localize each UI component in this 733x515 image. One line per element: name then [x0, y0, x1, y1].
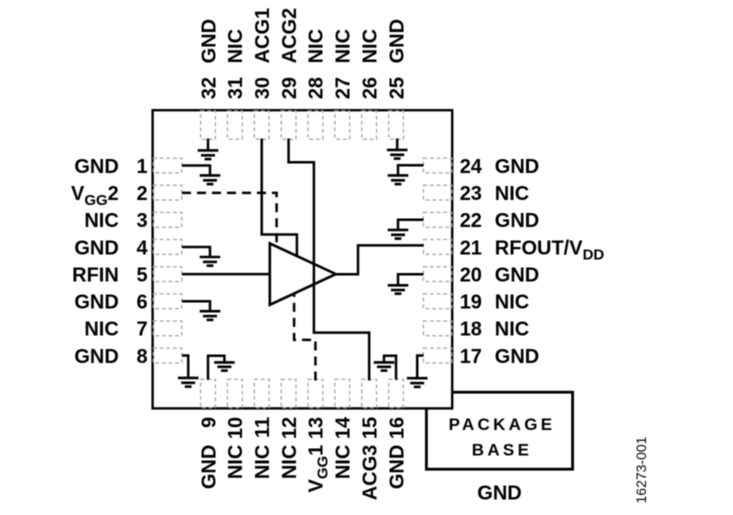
svg-text:ACG1: ACG1	[252, 8, 274, 64]
pin 2 pad	[153, 185, 182, 200]
pin 12 pad	[281, 379, 296, 407]
pin 9 pad	[201, 379, 216, 407]
ground pin8	[178, 378, 199, 387]
svg-text:NIC: NIC	[84, 210, 118, 232]
svg-text:15: 15	[359, 417, 381, 439]
svg-text:NIC: NIC	[333, 445, 355, 479]
svg-text:GND: GND	[74, 346, 118, 368]
wire pin1 to ground	[182, 166, 210, 175]
svg-text:NIC: NIC	[333, 29, 355, 63]
svg-text:27: 27	[333, 77, 355, 99]
svg-text:GND: GND	[495, 264, 539, 286]
pin 1 pad	[153, 158, 182, 173]
pin 3 pad	[153, 212, 182, 227]
wire pin6 to ground	[182, 301, 210, 310]
svg-text:NIC: NIC	[84, 319, 118, 341]
svg-text:23: 23	[460, 183, 482, 205]
svg-text:7: 7	[136, 319, 147, 341]
svg-text:11: 11	[252, 417, 274, 438]
svg-text:NIC: NIC	[359, 29, 381, 63]
svg-text:GND: GND	[477, 482, 521, 504]
ground pin6	[200, 311, 221, 320]
svg-text:16273-001: 16273-001	[633, 436, 649, 503]
pin 10 pad	[227, 379, 242, 407]
svg-text:GND: GND	[495, 156, 539, 178]
svg-text:14: 14	[333, 416, 355, 439]
package base box	[426, 392, 572, 469]
pin 25 pad	[389, 111, 404, 139]
wire amplifier output to pin21 RFOUT	[335, 245, 424, 274]
wire pin32 to ground	[207, 139, 210, 150]
svg-text:31: 31	[225, 77, 247, 99]
pin 8 pad	[153, 348, 182, 363]
pin 21 pad	[423, 240, 452, 255]
svg-text:9: 9	[198, 417, 220, 428]
ground pin24	[388, 175, 409, 184]
wire pin9 to ground	[208, 356, 224, 380]
svg-text:GND: GND	[198, 445, 220, 489]
dashed wire pin13 VGG1 to amplifier	[294, 294, 315, 381]
ground pin9	[214, 362, 235, 370]
svg-text:ACG3: ACG3	[359, 445, 381, 501]
ground pin25	[387, 150, 408, 159]
svg-text:NIC: NIC	[279, 445, 301, 479]
pin 13 pad	[308, 379, 323, 407]
wire pin30 ACG1	[262, 139, 297, 258]
pin 5 pad	[153, 267, 182, 282]
svg-text:RFIN: RFIN	[72, 264, 119, 286]
svg-text:BASE: BASE	[472, 440, 532, 459]
ground pin32	[198, 150, 219, 159]
dashed wire pin2 VGG2 to amplifier	[182, 193, 277, 246]
wire pin8 to ground	[182, 356, 188, 377]
svg-text:GND: GND	[74, 237, 118, 259]
svg-text:NIC: NIC	[306, 29, 328, 63]
wire pin20 to ground	[398, 274, 424, 285]
pin 22 pad	[423, 212, 452, 227]
ground pin1	[200, 175, 221, 184]
pin 32 pad	[201, 111, 216, 139]
svg-text:PACKAGE: PACKAGE	[449, 415, 556, 434]
pin 18 pad	[423, 321, 452, 336]
pin 7 pad	[153, 321, 182, 336]
svg-text:3: 3	[136, 210, 147, 232]
svg-text:6: 6	[136, 292, 147, 314]
svg-text:GND: GND	[386, 19, 408, 63]
svg-text:GND: GND	[74, 292, 118, 314]
svg-text:13: 13	[306, 417, 328, 439]
svg-text:NIC: NIC	[252, 445, 274, 479]
pin 27 pad	[335, 111, 350, 139]
pin 24 pad	[423, 158, 452, 173]
svg-text:30: 30	[252, 77, 274, 99]
wire pin4 to ground	[182, 247, 210, 256]
pin 23 pad	[423, 185, 452, 200]
svg-text:4: 4	[136, 237, 148, 259]
svg-text:19: 19	[460, 292, 482, 314]
wire pin29 ACG2 to pin15 ACG3	[289, 139, 370, 381]
svg-text:25: 25	[386, 77, 408, 99]
wire pin24 to ground	[398, 165, 424, 175]
svg-text:12: 12	[279, 417, 301, 439]
pin 20 pad	[423, 267, 452, 282]
wire pin25 to ground	[396, 139, 399, 150]
ground pin20	[388, 285, 409, 293]
wire pin17 to ground	[417, 356, 423, 378]
svg-text:10: 10	[225, 417, 247, 439]
pin 4 pad	[153, 240, 182, 255]
pin 11 pad	[254, 379, 269, 407]
pin pads (dashed)	[153, 111, 452, 408]
wire pin16 to ground	[384, 356, 396, 380]
pin 30 pad	[254, 111, 269, 139]
svg-text:8: 8	[136, 346, 147, 368]
svg-text:GND: GND	[495, 210, 539, 232]
op-amp U1 amplifier triangle	[270, 243, 336, 304]
svg-text:16: 16	[386, 417, 408, 439]
svg-text:24: 24	[460, 156, 483, 178]
svg-text:18: 18	[460, 319, 482, 341]
ground pin4	[200, 257, 221, 266]
pin 19 pad	[423, 294, 452, 309]
pin 31 pad	[227, 111, 242, 139]
svg-text:GND: GND	[495, 346, 539, 368]
pin 28 pad	[308, 111, 323, 139]
pin 15 pad	[362, 379, 377, 407]
IC package outline	[153, 110, 453, 408]
pin 17 pad	[423, 348, 452, 363]
svg-text:NIC: NIC	[225, 445, 247, 479]
wire pin22 to ground	[398, 220, 424, 230]
svg-text:2: 2	[136, 183, 147, 205]
svg-text:1: 1	[136, 156, 147, 178]
svg-text:5: 5	[136, 264, 147, 286]
svg-text:NIC: NIC	[495, 183, 529, 205]
svg-text:26: 26	[359, 77, 381, 99]
svg-text:29: 29	[279, 77, 301, 99]
pin 14 pad	[335, 379, 350, 407]
svg-text:ACG2: ACG2	[279, 8, 301, 64]
svg-text:22: 22	[460, 210, 482, 232]
ground pin17	[407, 378, 428, 387]
svg-text:NIC: NIC	[225, 29, 247, 63]
pin 29 pad	[281, 111, 296, 139]
svg-text:GND: GND	[74, 156, 118, 178]
svg-text:NIC: NIC	[495, 292, 529, 314]
svg-text:17: 17	[460, 346, 482, 368]
svg-text:32: 32	[198, 77, 220, 99]
pin 6 pad	[153, 294, 182, 309]
pin 16 pad	[389, 379, 404, 407]
svg-text:28: 28	[306, 77, 328, 99]
svg-text:GND: GND	[198, 19, 220, 63]
svg-text:GND: GND	[386, 445, 408, 489]
svg-text:21: 21	[460, 237, 482, 259]
pin 26 pad	[362, 111, 377, 139]
wire RFIN pin5 to amplifier input	[182, 273, 271, 276]
svg-text:NIC: NIC	[495, 319, 529, 341]
ground pin22	[388, 230, 409, 239]
svg-text:20: 20	[460, 264, 482, 286]
ground pin16	[374, 362, 395, 370]
